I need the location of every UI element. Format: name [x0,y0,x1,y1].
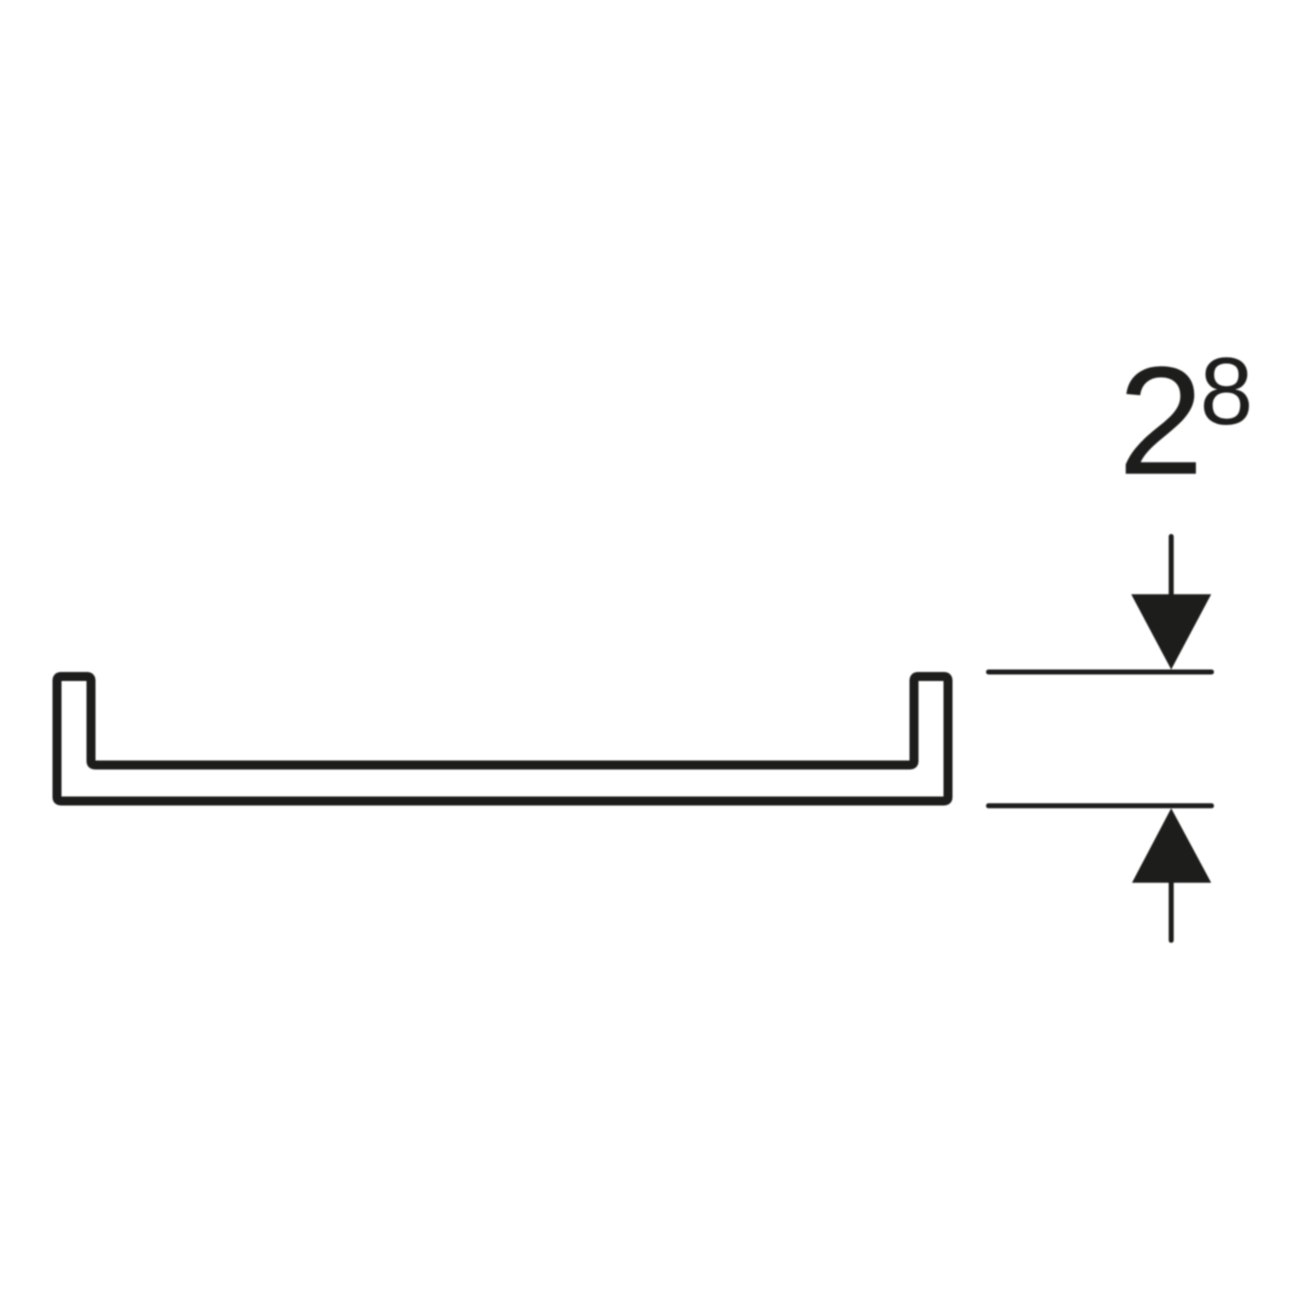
arrow up head [1132,808,1211,882]
arrow up stem [1169,877,1174,940]
channel profile outline [57,677,948,802]
dimension extension line top [989,670,1212,675]
dimension extension line bottom [989,803,1212,808]
arrow down head [1131,594,1211,669]
svg-text:8: 8 [1200,338,1253,445]
arrow down stem [1169,537,1174,601]
svg-text:2: 2 [1118,335,1204,507]
